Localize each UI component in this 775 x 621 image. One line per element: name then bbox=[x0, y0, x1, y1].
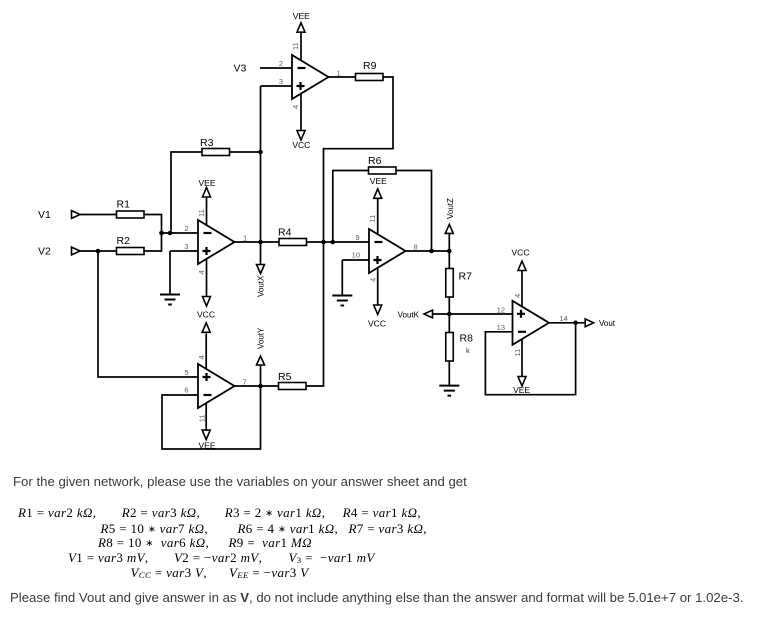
wire bbox=[448, 297, 450, 314]
svg-text:VEE: VEE bbox=[293, 11, 310, 21]
wire pin4 bbox=[377, 267, 379, 305]
node VoutY arrow bbox=[257, 356, 265, 365]
node VoutY junction bbox=[258, 384, 263, 389]
wire U5 output bbox=[235, 385, 261, 387]
svg-text:9: 9 bbox=[355, 233, 359, 242]
op-amp U3 bbox=[369, 229, 406, 273]
resistor R9 bbox=[356, 74, 384, 81]
wire to VoutX arrow bbox=[260, 242, 262, 265]
wire U2 output bbox=[329, 76, 356, 78]
wire bbox=[448, 251, 450, 269]
svg-text:R7: R7 bbox=[459, 271, 473, 283]
node R3/V3+ junction bbox=[258, 150, 263, 155]
node VoutX junction bbox=[258, 240, 263, 245]
wire pin11 bbox=[300, 32, 302, 61]
svg-text:VCC: VCC bbox=[197, 310, 215, 320]
wire U4 feedback bbox=[485, 323, 575, 395]
wire pin4 bbox=[205, 334, 207, 370]
svg-text:VEE: VEE bbox=[198, 178, 215, 188]
svg-text:3: 3 bbox=[184, 242, 188, 251]
wire U5 feedback bbox=[162, 386, 261, 449]
wire pin3 to ground bbox=[170, 250, 198, 252]
svg-text:11: 11 bbox=[197, 209, 206, 217]
svg-text:VCC: VCC bbox=[292, 140, 310, 150]
op-amp U5 (Y buffer) bbox=[198, 364, 235, 408]
svg-text:R3: R3 bbox=[200, 137, 214, 149]
ground bbox=[439, 386, 459, 396]
wire pin11 bbox=[521, 339, 523, 377]
svg-text:VoutX: VoutX bbox=[257, 275, 266, 297]
wire R6 left lead bbox=[333, 171, 369, 243]
resistor R1 bbox=[117, 211, 145, 218]
svg-text:VoutZ: VoutZ bbox=[446, 198, 455, 219]
svg-text:R6: R6 bbox=[368, 155, 382, 167]
node R3 junction bbox=[168, 231, 173, 236]
wire R5 left lead bbox=[261, 385, 279, 387]
wire R3 left lead bbox=[171, 152, 202, 233]
wire R6 right lead bbox=[396, 171, 432, 252]
node VoutK arrow bbox=[424, 310, 433, 318]
node R1/R2 junction bbox=[159, 231, 164, 236]
wire pin4 bbox=[206, 258, 208, 297]
wire V2 to pin5 bbox=[98, 251, 198, 377]
wire bbox=[144, 215, 162, 234]
wire U1 output bbox=[235, 241, 280, 243]
svg-text:4: 4 bbox=[291, 105, 300, 109]
op-amp U1 bbox=[198, 220, 235, 264]
node output junction bbox=[573, 321, 578, 326]
wire bbox=[144, 233, 162, 251]
svg-text:14: 14 bbox=[560, 314, 568, 323]
svg-text:VEE: VEE bbox=[513, 385, 530, 395]
wire bbox=[448, 314, 450, 333]
wire V3+ net vertical bbox=[260, 152, 262, 242]
wire pin11 bbox=[206, 197, 208, 226]
svg-text:R4: R4 bbox=[278, 227, 292, 239]
svg-text:V1: V1 bbox=[38, 209, 51, 221]
svg-text:8: 8 bbox=[414, 242, 418, 251]
port Vout arrow bbox=[585, 319, 594, 327]
wire pin2 of U1 bbox=[162, 232, 199, 234]
wire pin4 bbox=[300, 93, 302, 131]
wire to VoutZ arrow bbox=[448, 233, 450, 251]
ground bbox=[160, 295, 180, 305]
wire pin10 to ground bbox=[342, 259, 369, 261]
wire pin11 bbox=[377, 198, 379, 235]
power VEE of U3 bbox=[374, 189, 382, 199]
wire U4 output bbox=[549, 322, 586, 324]
svg-text:5: 5 bbox=[184, 368, 188, 377]
svg-text:R2: R2 bbox=[117, 235, 131, 247]
svg-text:4: 4 bbox=[369, 278, 378, 282]
svg-text:4: 4 bbox=[513, 294, 522, 298]
node R9-net junction bbox=[321, 240, 326, 245]
svg-text:11: 11 bbox=[513, 349, 522, 357]
resistor R4 bbox=[279, 239, 307, 246]
wire pin3 bbox=[261, 85, 293, 87]
resistor R2 bbox=[117, 248, 145, 255]
svg-text:11: 11 bbox=[368, 215, 377, 223]
svg-text:VCC: VCC bbox=[368, 319, 386, 329]
op-amp U4 bbox=[513, 301, 550, 345]
wire pin12 of U4 bbox=[449, 313, 512, 315]
power VCC of U1 bbox=[203, 297, 211, 307]
wire pin9 of U3 bbox=[307, 241, 370, 243]
svg-text:VoutK: VoutK bbox=[398, 310, 420, 319]
svg-text:1: 1 bbox=[243, 233, 247, 242]
node VoutX arrow bbox=[257, 265, 265, 274]
wire pin4 bbox=[521, 271, 523, 307]
node V2/pin5 junction bbox=[96, 249, 101, 254]
wire pin11 bbox=[205, 403, 207, 431]
wire R3 right lead bbox=[229, 151, 261, 153]
svg-text:1: 1 bbox=[337, 68, 341, 77]
svg-text:12: 12 bbox=[497, 305, 505, 314]
power VEE of U5 bbox=[202, 430, 210, 440]
svg-text:11: 11 bbox=[291, 42, 300, 50]
ground bbox=[332, 296, 352, 306]
svg-text:VoutY: VoutY bbox=[257, 327, 266, 349]
wire R9 to pin9 net bbox=[324, 77, 394, 242]
power VCC of U5 bbox=[202, 323, 210, 333]
wire bbox=[80, 214, 117, 216]
node VoutZ arrow bbox=[445, 224, 453, 233]
op-amp U2 (V3 stage) bbox=[292, 55, 329, 99]
node VoutK junction bbox=[447, 312, 452, 317]
power VEE of U4 bbox=[518, 377, 526, 387]
svg-text:3: 3 bbox=[279, 77, 283, 86]
wire R5 right lead to pin9 net bbox=[306, 242, 324, 386]
svg-text:4: 4 bbox=[197, 355, 206, 359]
power VCC of U4 bbox=[518, 261, 526, 271]
svg-text:11: 11 bbox=[198, 415, 207, 423]
wire to VoutY arrow bbox=[260, 365, 262, 387]
svg-text:k: k bbox=[466, 346, 470, 355]
svg-text:VEE: VEE bbox=[370, 176, 387, 186]
wire arrow to node bbox=[433, 313, 450, 315]
svg-text:Vout: Vout bbox=[599, 319, 616, 328]
svg-text:R8: R8 bbox=[460, 333, 474, 345]
resistor R6 bbox=[369, 167, 397, 174]
svg-text:R9: R9 bbox=[363, 60, 377, 72]
wire bbox=[80, 250, 117, 252]
svg-text:13: 13 bbox=[497, 323, 505, 332]
power VEE of U1 bbox=[203, 188, 211, 198]
resistor R7 bbox=[446, 269, 454, 298]
resistor R8 bbox=[446, 333, 454, 362]
svg-text:V3: V3 bbox=[234, 63, 247, 75]
wire V3 to pin2 bbox=[260, 67, 292, 69]
svg-text:R5: R5 bbox=[278, 371, 292, 383]
node R6/output junction bbox=[429, 249, 434, 254]
svg-text:R1: R1 bbox=[117, 199, 131, 211]
resistor R3 bbox=[202, 149, 230, 156]
svg-text:10: 10 bbox=[352, 251, 360, 260]
wire R8 to ground bbox=[448, 361, 450, 386]
power VCC of U2 bbox=[297, 131, 305, 141]
svg-text:V2: V2 bbox=[38, 246, 51, 258]
svg-text:7: 7 bbox=[243, 377, 247, 386]
svg-text:6: 6 bbox=[184, 386, 188, 395]
resistor R5 bbox=[279, 383, 307, 390]
power VCC of U3 bbox=[374, 305, 382, 315]
node R6 junction bbox=[331, 240, 336, 245]
node VoutZ junction bbox=[447, 249, 452, 254]
svg-text:4: 4 bbox=[197, 270, 206, 274]
wire U3 output bbox=[406, 250, 450, 252]
power VEE of U2 bbox=[297, 23, 305, 33]
svg-text:VCC: VCC bbox=[512, 247, 530, 257]
svg-text:2: 2 bbox=[279, 59, 283, 68]
svg-text:2: 2 bbox=[184, 224, 188, 233]
